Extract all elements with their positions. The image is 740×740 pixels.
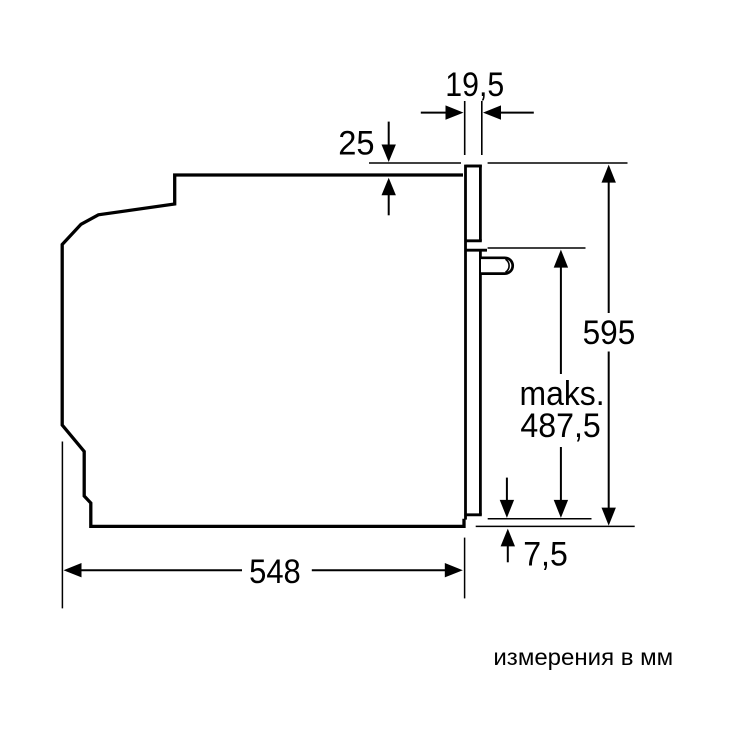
dimension 595 vertical [602,165,616,526]
oven door front panel [464,165,487,520]
oven body outline [62,175,464,526]
svg-text:548: 548 [249,553,301,591]
dimension 7,5 arrows [500,478,515,563]
extension line 19,5 left [464,101,466,155]
svg-text:7,5: 7,5 [523,535,568,573]
dimension 19,5 arrows [421,105,534,119]
reference line oven bottom [476,525,635,527]
extension line 548 left [61,442,63,609]
reference line hinge [488,247,586,249]
reference line door bottom [488,518,592,520]
svg-text:25: 25 [338,125,374,163]
reference line door top right [488,162,628,164]
reference line door top left [369,162,461,164]
extension line 548 right [464,538,466,599]
dimension 548 horizontal [64,563,463,577]
extension line 19,5 right [481,101,483,155]
svg-text:595: 595 [583,314,636,352]
svg-text:487,5: 487,5 [520,407,600,445]
dimension maks 487,5 vertical [554,250,568,518]
svg-text:измерения в мм: измерения в мм [493,644,673,670]
svg-text:19,5: 19,5 [445,66,504,104]
hinge pin [481,258,513,274]
dimension 25 arrows [382,122,396,216]
